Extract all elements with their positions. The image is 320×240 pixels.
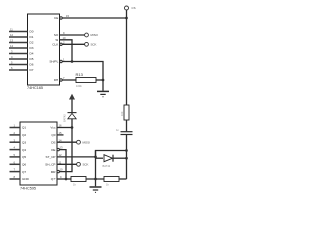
wire [86, 178, 104, 180]
svg-text:SO: SO [54, 33, 59, 37]
svg-text:D3: D3 [30, 46, 34, 50]
resistor R vertical [124, 105, 129, 120]
wire CE pin15 to CS line [62, 17, 126, 19]
node R13/ground [102, 79, 105, 82]
svg-text:Q6: Q6 [22, 163, 26, 167]
svg-text:Q0: Q0 [51, 133, 55, 137]
wire diode anode vertical [95, 151, 97, 187]
resistor R13 [96, 79, 103, 81]
wire SH_CP pin11 to SCK [57, 163, 77, 165]
wire ST_CP pin12 [57, 156, 96, 158]
svg-text:100: 100 [120, 111, 124, 116]
svg-text:74HC165: 74HC165 [27, 86, 43, 90]
diode D1 vertical (to supply arrow) [71, 119, 73, 128]
svg-text:D0: D0 [30, 30, 34, 34]
svg-text:SH/PL: SH/PL [49, 60, 58, 64]
svg-text:SCK: SCK [91, 42, 97, 46]
svg-text:15: 15 [59, 131, 62, 135]
svg-text:13: 13 [60, 146, 63, 150]
svg-text:15: 15 [66, 14, 69, 18]
svg-text:SCK: SCK [83, 162, 89, 166]
wire OE pin13 down [59, 150, 66, 179]
svg-text:Q5: Q5 [22, 155, 26, 159]
wire CLK pin2 to SCK [62, 43, 84, 45]
wire Q7' pin9 [57, 178, 71, 180]
svg-text:Q2: Q2 [22, 133, 26, 137]
node ST_CP/diode [94, 156, 97, 159]
svg-text:BAT42: BAT42 [63, 114, 67, 122]
wire CS vertical [126, 10, 128, 105]
bubble DH [60, 79, 62, 81]
terminal SCK top [85, 42, 89, 46]
svg-text:MISO: MISO [91, 33, 99, 37]
svg-text:CLK: CLK [52, 43, 59, 47]
svg-text:DS: DS [51, 140, 55, 144]
wire [126, 120, 128, 131]
bubble CLK [60, 43, 62, 45]
resistor R1 bottom [71, 177, 86, 182]
terminal CS [125, 6, 129, 10]
ground (top) [102, 80, 104, 91]
IC U2 left pin stubs Q1-Q7,GND [10, 128, 21, 180]
node latch wire [125, 149, 128, 152]
svg-text:Q4: Q4 [22, 148, 26, 152]
svg-text:D5: D5 [30, 57, 34, 61]
node Vcc [71, 126, 74, 129]
diode D2 BAT42 horizontal [96, 157, 104, 159]
resistor R2 bottom [104, 177, 119, 182]
svg-text:ST_CP: ST_CP [46, 155, 56, 159]
bubble CE [60, 17, 62, 19]
svg-text:OE: OE [51, 148, 55, 152]
node diode cathode [125, 157, 128, 160]
svg-text:R13: R13 [76, 72, 84, 77]
IC U1 74HC165 body [28, 14, 60, 85]
svg-text:10: 10 [63, 36, 66, 40]
svg-text:SH_CP: SH_CP [45, 163, 55, 167]
svg-text:MOSI: MOSI [83, 140, 91, 144]
wire DH pin7 to R13 [62, 79, 76, 81]
svg-text:D2: D2 [30, 41, 34, 45]
svg-text:16: 16 [59, 124, 62, 128]
svg-text:BAT42: BAT42 [103, 164, 111, 168]
node OE/bottom [65, 178, 68, 181]
svg-text:Q7': Q7' [51, 177, 56, 181]
bubble OE [57, 148, 59, 150]
wire SO pin9 to MISO [60, 34, 85, 36]
svg-text:D1: D1 [30, 35, 34, 39]
IC U1 left pin stubs D0-D7 [9, 32, 28, 71]
svg-text:SI: SI [55, 38, 58, 42]
wire MR pin10 to Vcc rail [59, 128, 72, 172]
svg-text:GND: GND [22, 177, 30, 181]
junction SI-SHPL [71, 60, 74, 63]
bubble MR [57, 170, 59, 172]
wire [126, 135, 128, 180]
wire Q0 pin15 stub [57, 134, 64, 136]
terminal MOSI [77, 140, 81, 144]
svg-text:D4: D4 [30, 52, 34, 56]
svg-text:12: 12 [10, 33, 13, 37]
svg-text:74HC595: 74HC595 [20, 186, 36, 190]
capacitor C [121, 131, 133, 133]
svg-text:10: 10 [60, 168, 63, 172]
svg-text:12: 12 [59, 153, 62, 157]
svg-text:Q3: Q3 [22, 140, 26, 144]
svg-text:CE: CE [54, 16, 58, 20]
svg-text:100k: 100k [76, 84, 82, 88]
svg-text:DH: DH [54, 78, 58, 82]
svg-text:D6: D6 [30, 63, 34, 67]
terminal SCK bottom [77, 162, 81, 166]
node CS/CE [125, 17, 128, 20]
wire latch step to CS line [96, 151, 127, 157]
terminal MISO [85, 33, 89, 37]
svg-text:D7: D7 [30, 68, 34, 72]
IC U2 74HC595 body [20, 122, 57, 185]
svg-text:MR: MR [51, 170, 57, 174]
svg-text:CS: CS [132, 6, 136, 10]
svg-text:Q7: Q7 [22, 170, 26, 174]
ground (bottom) [90, 186, 102, 188]
svg-text:Q1: Q1 [22, 126, 26, 130]
wire Vcc pin16 [57, 127, 72, 129]
node center bottom [94, 178, 97, 181]
wire SH/PL pin1 [62, 62, 103, 81]
wire SI pin10 [60, 40, 73, 62]
bubble SH/PL [60, 60, 62, 62]
wire bottom right [119, 178, 127, 180]
svg-text:Vcc: Vcc [50, 126, 56, 130]
supply arrow VCC [69, 94, 75, 100]
svg-text:14: 14 [10, 44, 13, 48]
wire DS pin14 to MOSI [57, 141, 77, 143]
svg-text:14: 14 [59, 138, 62, 142]
svg-text:13: 13 [10, 39, 13, 43]
